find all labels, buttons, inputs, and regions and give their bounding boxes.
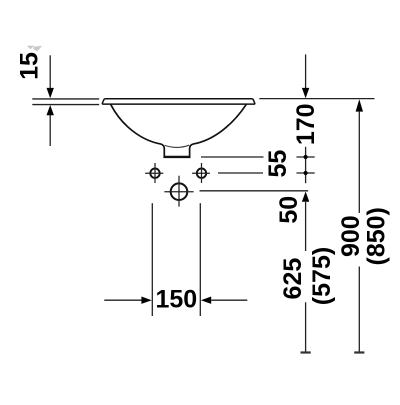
svg-text:170: 170 — [292, 103, 320, 145]
dim 50 arrow — [302, 192, 309, 202]
drain hole (large) — [171, 183, 188, 200]
svg-text:(575): (575) — [308, 247, 336, 305]
dim 150 left arrow — [104, 299, 142, 301]
tap hole right — [197, 169, 206, 178]
rim level line right — [259, 98, 374, 100]
dim 150 extension lines — [152, 203, 200, 316]
tap hole level line — [218, 172, 315, 174]
tap hole right crosshair — [192, 163, 210, 183]
dim 625(575) line lower part — [305, 302, 307, 352]
svg-text:900: 900 — [337, 215, 365, 257]
dim 15 extension lines — [32, 99, 99, 105]
drain hole level line — [200, 190, 309, 192]
tap hole left crosshair — [145, 163, 163, 183]
watermark chevron — [27, 46, 42, 52]
dim 625(575) bottom tick — [301, 351, 311, 353]
dim 150 right arrow — [201, 297, 211, 304]
bowl inner bottom line — [165, 145, 189, 147]
dim 900(850) line lower part — [358, 267, 360, 353]
dim 900(850) arrow — [356, 99, 363, 111]
svg-text:(850): (850) — [363, 207, 391, 265]
svg-text:50: 50 — [275, 196, 303, 224]
dim 15 upper arrow — [49, 55, 51, 89]
bowl outline — [111, 105, 246, 156]
drain hole crosshair — [164, 176, 193, 207]
dim 15 lower arrow — [49, 114, 51, 147]
svg-text:15: 15 — [15, 52, 43, 80]
drain outlet bottom edge — [163, 156, 190, 158]
dim 900(850) bottom tick — [354, 351, 364, 353]
svg-text:625: 625 — [279, 258, 307, 300]
svg-text:150: 150 — [155, 285, 197, 313]
dim 55 line with dots — [305, 147, 307, 183]
drain bottom level line — [201, 156, 315, 158]
basin rim — [102, 99, 254, 104]
svg-text:55: 55 — [264, 150, 292, 178]
tap hole left — [150, 169, 159, 178]
dim 170 arrow — [305, 54, 307, 89]
